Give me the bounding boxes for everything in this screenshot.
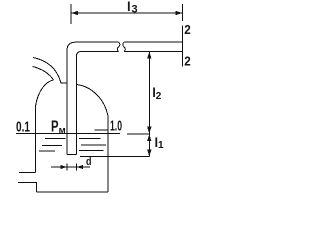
l2 top arrowhead (147, 52, 151, 59)
dimension line l2/l1 vertical (148, 52, 150, 157)
pipe break left squiggle (117, 42, 120, 51)
pipe inner wall (right wall, elbow, bottom wall to break) (77, 52, 119, 155)
dimension l3 left arrowhead (71, 11, 78, 16)
pipe bottom wall right segment (124, 51, 183, 53)
pipe mouth bottom edge (67, 154, 77, 156)
pipe break right squiggle (123, 42, 126, 51)
svg-text:P: P (51, 119, 59, 136)
spout outer arc (33, 58, 67, 84)
tank bottom (37, 191, 109, 193)
l1 bottom arrowhead (147, 150, 151, 157)
svg-text:3: 3 (132, 4, 138, 16)
svg-text:м: м (59, 125, 66, 136)
liquid shading dash L3 (39, 150, 55, 152)
spout inner arc (33, 67, 54, 81)
liquid shading dash R2 (81, 144, 106, 146)
pipe outer wall (left wall, elbow, top wall to break) (67, 42, 119, 154)
svg-text:1: 1 (158, 140, 164, 151)
dimension l3 line (71, 12, 183, 14)
pipe top wall right segment (124, 41, 183, 43)
d right tick (76, 164, 78, 171)
d left tick (66, 164, 68, 171)
svg-text:l: l (127, 0, 131, 14)
dimension l3 right extension tick (182, 4, 184, 21)
tank left wall (35, 106, 37, 172)
d left arrowhead (61, 165, 68, 169)
l1 top arrowhead (147, 134, 151, 141)
short level dash at right wall (95, 129, 108, 131)
liquid shading dash R1 (79, 138, 101, 140)
svg-text:2: 2 (156, 91, 162, 102)
svg-text:0.1: 0.1 (16, 120, 30, 136)
liquid surface line (16, 133, 120, 135)
svg-text:1.0: 1.0 (110, 119, 122, 135)
tank dome left shoulder (36, 80, 54, 106)
tank outlet stub top wall (19, 171, 36, 173)
d right arrowhead (77, 165, 84, 169)
liquid shading dash L1 (45, 138, 66, 140)
pipe mouth extension line to dimension line (80, 156, 149, 158)
dimension l3 right arrowhead (176, 11, 183, 16)
dimension l3 left extension tick (70, 4, 72, 24)
svg-text:2: 2 (184, 55, 191, 69)
dimension d line (51, 166, 90, 168)
svg-text:d: d (86, 156, 92, 168)
l2 bottom arrowhead (147, 127, 151, 134)
section line 2-2 (182, 26, 184, 67)
liquid shading dash R3 (79, 150, 104, 152)
tank right wall and dome right shoulder (77, 85, 109, 193)
surface extension dash to dimension line (127, 133, 149, 135)
tank outlet stub bottom wall (18, 182, 37, 192)
liquid shading dash L2 (42, 145, 62, 147)
svg-text:2: 2 (184, 23, 191, 37)
